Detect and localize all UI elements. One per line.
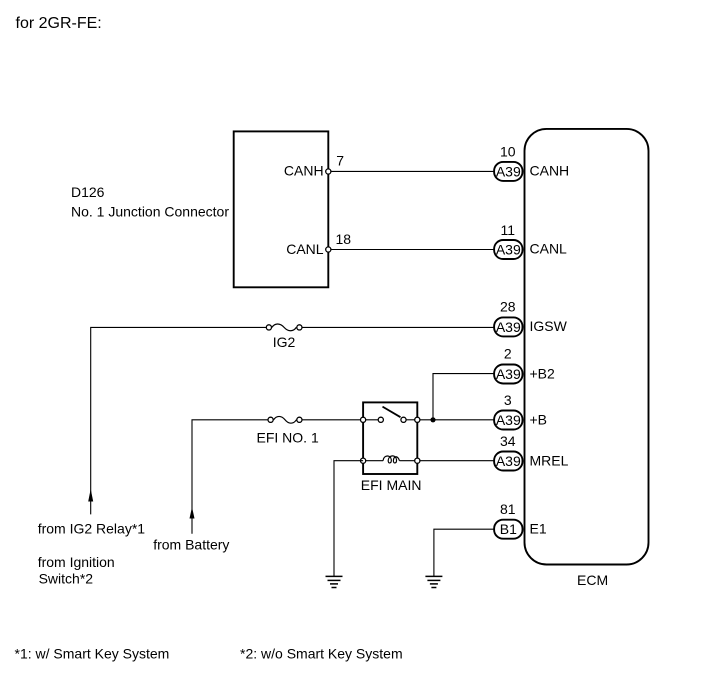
arrow from Battery [190, 507, 195, 519]
relay switch contact wire [363, 419, 381, 421]
ECM terminal A39-28 IGSW [494, 298, 568, 336]
junction connector D126 box [234, 131, 329, 287]
svg-text:CANL: CANL [530, 241, 568, 257]
node: D126 pin 18 terminal [326, 247, 331, 252]
svg-text:ECM: ECM [577, 572, 608, 588]
svg-text:*2: w/o Smart Key System: *2: w/o Smart Key System [240, 645, 403, 661]
relay switch blade [383, 407, 401, 418]
ECM terminal A39-2 +B2 [494, 346, 555, 384]
svg-text:81: 81 [500, 501, 516, 517]
label from Ignition Switch*2 [38, 554, 115, 587]
wire CANL: D126 pin 18 to ECM A39-11 [331, 249, 494, 251]
svg-text:D126: D126 [71, 184, 105, 200]
svg-text:EFI NO. 1: EFI NO. 1 [257, 430, 319, 446]
fuse IG2 [266, 324, 302, 350]
svg-text:34: 34 [500, 433, 516, 449]
svg-text:A39: A39 [496, 319, 521, 335]
svg-text:IGSW: IGSW [530, 318, 568, 334]
svg-text:from Ignition: from Ignition [38, 554, 115, 570]
fuse EFI NO. 1 [257, 416, 319, 445]
svg-text:Switch*2: Switch*2 [39, 571, 94, 587]
wire IGSW: from IG2 relay line up and across to ECM A39-28 [91, 327, 494, 514]
node: +B junction dot [430, 417, 435, 422]
svg-text:A39: A39 [496, 163, 521, 179]
label D126 / No. 1 Junction Connector [71, 184, 229, 219]
relay EFI MAIN box [363, 402, 417, 474]
ECM terminal A39-34 MREL [494, 433, 569, 471]
ground (relay coil) [326, 576, 343, 587]
pin CANH of D126 (pin 7) [284, 153, 344, 179]
svg-text:3: 3 [504, 392, 512, 408]
svg-text:11: 11 [501, 222, 516, 238]
relay switch terminals [361, 417, 420, 422]
svg-text:CANH: CANH [530, 163, 570, 179]
svg-text:2: 2 [504, 346, 512, 362]
ECM terminal A39-10 CANH [494, 144, 569, 181]
wire +B: relay switch to ECM A39-3 [420, 419, 494, 421]
svg-text:CANL: CANL [286, 241, 324, 257]
svg-text:A39: A39 [496, 241, 521, 257]
svg-text:+B: +B [530, 411, 548, 427]
ground (E1) [425, 576, 442, 587]
relay coil L1 [383, 456, 399, 463]
svg-text:28: 28 [500, 298, 516, 314]
ECM terminal A39-11 CANL [494, 222, 567, 259]
wire +B feed: from Battery line up and across to relay [192, 420, 363, 534]
arrow from IG2 Relay [88, 489, 93, 502]
svg-text:18: 18 [336, 231, 352, 247]
relay coil wire [363, 460, 383, 462]
svg-text:for 2GR-FE:: for 2GR-FE: [16, 15, 102, 32]
svg-text:*1: w/ Smart Key System: *1: w/ Smart Key System [15, 645, 170, 661]
wire: relay coil to ground [334, 461, 363, 576]
svg-text:No. 1 Junction Connector: No. 1 Junction Connector [71, 203, 229, 219]
svg-text:A39: A39 [496, 366, 521, 382]
wire E1: ECM B1-81 to ground [434, 529, 494, 576]
svg-text:from Battery: from Battery [153, 537, 229, 553]
pin CANL of D126 (pin 18) [286, 231, 351, 257]
ECM terminal B1-81 E1 [494, 501, 547, 539]
svg-text:CANH: CANH [284, 163, 324, 179]
svg-text:from IG2 Relay*1: from IG2 Relay*1 [38, 521, 146, 537]
wire MREL: relay coil to ECM A39-34 [420, 460, 494, 462]
relay coil terminals [361, 458, 420, 463]
svg-text:MREL: MREL [530, 452, 569, 468]
wire +B2 branch: junction up and across to ECM A39-2 [433, 374, 494, 420]
svg-text:A39: A39 [496, 412, 521, 428]
svg-text:10: 10 [500, 144, 516, 160]
svg-text:B1: B1 [500, 521, 517, 537]
svg-text:E1: E1 [530, 521, 547, 537]
svg-text:A39: A39 [496, 453, 521, 469]
svg-text:7: 7 [336, 153, 344, 169]
svg-text:EFI MAIN: EFI MAIN [361, 477, 422, 493]
ECM terminal A39-3 +B [494, 392, 547, 430]
wire CANH: D126 pin 7 to ECM A39-10 [331, 170, 494, 172]
ECM box [525, 129, 649, 565]
svg-text:IG2: IG2 [273, 334, 296, 350]
svg-text:+B2: +B2 [530, 365, 556, 381]
node: D126 pin 7 terminal [326, 169, 331, 174]
